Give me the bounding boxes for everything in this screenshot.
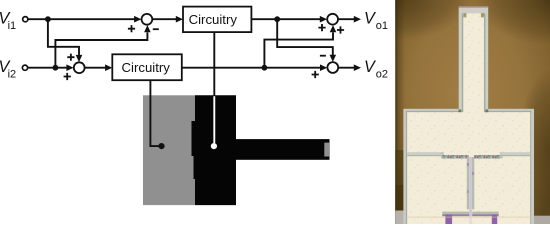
svg-text:Circuitry: Circuitry bbox=[122, 60, 171, 75]
svg-text:o2: o2 bbox=[376, 68, 388, 80]
svg-text:Circuitry: Circuitry bbox=[189, 12, 238, 27]
svg-text:i2: i2 bbox=[8, 68, 17, 80]
svg-text:i1: i1 bbox=[8, 20, 17, 32]
svg-text:o1: o1 bbox=[376, 20, 388, 32]
